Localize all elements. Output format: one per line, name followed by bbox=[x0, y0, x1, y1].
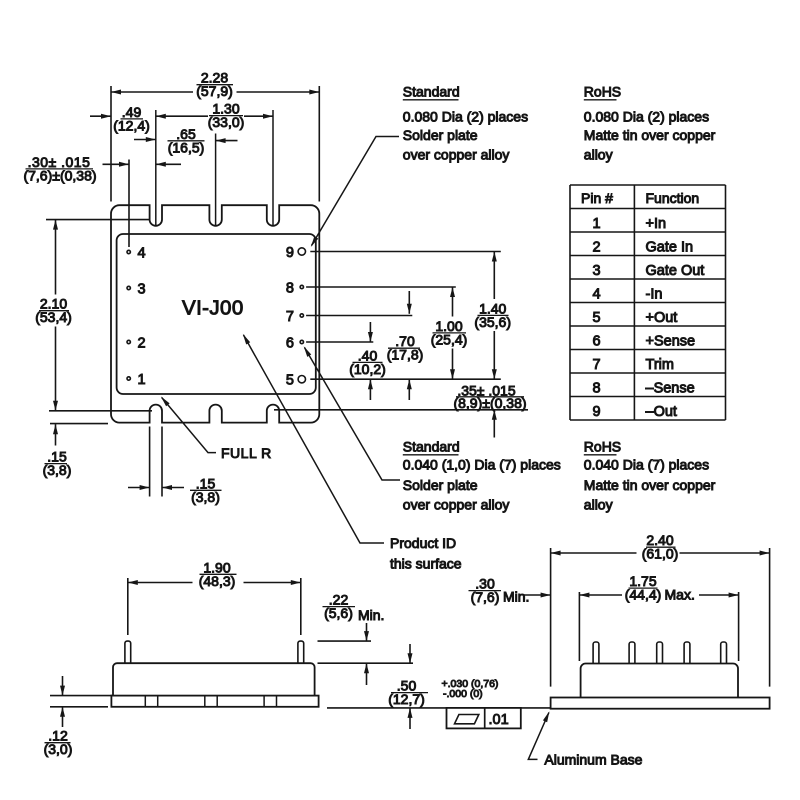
svg-text:-In: -In bbox=[646, 286, 663, 302]
svg-text:4: 4 bbox=[138, 245, 146, 261]
side view body bbox=[113, 663, 315, 695]
svg-text:(44,4): (44,4) bbox=[625, 587, 662, 603]
svg-text:0.080 Dia (2) places: 0.080 Dia (2) places bbox=[584, 108, 709, 124]
end view pin 6 bbox=[684, 642, 690, 664]
svg-text:0.080 Dia (2) places: 0.080 Dia (2) places bbox=[403, 108, 528, 124]
side view base slot marks bbox=[145, 696, 276, 707]
dimension 1.40 (35,6) bbox=[474, 252, 511, 380]
svg-text:FULL R: FULL R bbox=[221, 445, 272, 461]
svg-text:(3,8): (3,8) bbox=[43, 462, 72, 478]
top view inner face bbox=[117, 234, 316, 394]
svg-text:alloy: alloy bbox=[584, 496, 613, 512]
svg-text:5: 5 bbox=[592, 310, 600, 326]
svg-text:(25,4): (25,4) bbox=[431, 331, 468, 347]
svg-text:2: 2 bbox=[138, 335, 146, 351]
pin row reference line y=410.5 bbox=[274, 409, 528, 411]
svg-text:(8,9)±(0,38): (8,9)±(0,38) bbox=[453, 395, 526, 411]
leader to pin 9 bbox=[309, 137, 399, 249]
svg-text:3: 3 bbox=[592, 263, 600, 279]
svg-text:Pin #: Pin # bbox=[581, 190, 613, 206]
pin 4 bbox=[127, 245, 146, 261]
svg-text:–Out: –Out bbox=[646, 404, 677, 420]
pin 8 bbox=[286, 280, 456, 296]
dimension .35±.015 (8,9)±(0,38) bbox=[453, 382, 526, 437]
svg-text:+In: +In bbox=[646, 216, 667, 232]
svg-text:(7,6): (7,6) bbox=[471, 589, 500, 605]
svg-text:3: 3 bbox=[138, 281, 146, 297]
leader FULL R bbox=[159, 395, 216, 453]
svg-text:9: 9 bbox=[286, 245, 294, 261]
svg-text:Function: Function bbox=[646, 190, 700, 206]
svg-text:(57,9): (57,9) bbox=[196, 83, 233, 99]
side view left pin bbox=[125, 641, 131, 663]
dimension .50 (12,7) height bbox=[388, 644, 428, 729]
svg-text:0.040 (1,0) Dia (7) places: 0.040 (1,0) Dia (7) places bbox=[403, 456, 561, 472]
svg-text:Gate Out: Gate Out bbox=[646, 263, 705, 279]
svg-text:Trim: Trim bbox=[646, 357, 674, 373]
svg-text:6: 6 bbox=[592, 333, 600, 349]
svg-text:this surface: this surface bbox=[390, 556, 462, 572]
svg-text:–Sense: –Sense bbox=[646, 380, 695, 396]
svg-text:2: 2 bbox=[592, 239, 600, 255]
svg-text:alloy: alloy bbox=[584, 146, 613, 162]
dimension 1.00 (25,4) bbox=[431, 287, 468, 379]
dimension 1.90 (48,3) bbox=[128, 559, 301, 635]
dimension .65 (16,5) bbox=[134, 126, 238, 156]
svg-text:Aluminum Base: Aluminum Base bbox=[544, 751, 642, 767]
svg-text:over copper alloy: over copper alloy bbox=[403, 146, 510, 162]
dimension 1.75 (44,4) Max bbox=[579, 573, 738, 661]
tolerance note +.030/-.000 bbox=[442, 678, 499, 700]
note RoHS 0.080 plating bbox=[584, 84, 716, 163]
svg-text:5: 5 bbox=[286, 373, 294, 389]
note standard 0.080 plating bbox=[403, 84, 528, 163]
svg-text:(12,4): (12,4) bbox=[113, 117, 150, 133]
svg-text:+Sense: +Sense bbox=[646, 333, 696, 349]
note RoHS 0.040 plating bbox=[584, 439, 716, 513]
svg-text:Product ID: Product ID bbox=[390, 535, 456, 551]
svg-text:Min.: Min. bbox=[503, 589, 529, 605]
svg-text:-.000 (0): -.000 (0) bbox=[443, 688, 483, 700]
pin function table bbox=[570, 185, 726, 420]
svg-text:Gate In: Gate In bbox=[646, 239, 694, 255]
svg-text:6: 6 bbox=[286, 335, 294, 351]
leader aluminum base bbox=[528, 710, 551, 759]
dimension .12 (3,0) base thickness bbox=[44, 676, 112, 757]
svg-text:1: 1 bbox=[138, 372, 146, 388]
svg-text:Max.: Max. bbox=[665, 586, 695, 602]
dimension 1.30 (33,0) bbox=[156, 101, 273, 131]
svg-text:(10,2): (10,2) bbox=[349, 361, 386, 377]
svg-text:(5,6): (5,6) bbox=[324, 605, 353, 621]
end view pin 5 bbox=[721, 642, 727, 664]
svg-text:RoHS: RoHS bbox=[584, 439, 621, 455]
svg-text:1: 1 bbox=[592, 216, 600, 232]
pin 3 bbox=[127, 281, 146, 297]
svg-text:Standard: Standard bbox=[403, 84, 460, 100]
svg-text:(17,8): (17,8) bbox=[387, 347, 424, 363]
leader to pin 6 bbox=[302, 345, 400, 480]
svg-text:VI-J00: VI-J00 bbox=[182, 297, 244, 320]
svg-text:(12,7): (12,7) bbox=[388, 691, 425, 707]
dimension .30 (7,6) Min bbox=[469, 576, 551, 606]
side view base plate bbox=[111, 696, 318, 707]
side view right pin bbox=[298, 641, 304, 663]
note standard 0.040 plating bbox=[403, 439, 561, 513]
pin 7 bbox=[286, 309, 412, 325]
svg-text:8: 8 bbox=[286, 280, 294, 296]
svg-text:Min.: Min. bbox=[358, 607, 384, 623]
svg-text:(35,6): (35,6) bbox=[474, 314, 511, 330]
svg-text:Solder plate: Solder plate bbox=[403, 127, 478, 143]
flatness feature control frame bbox=[447, 708, 521, 729]
svg-text:(3,0): (3,0) bbox=[44, 741, 73, 757]
svg-text:Matte tin over copper: Matte tin over copper bbox=[584, 477, 716, 493]
dimension .30±.015 (7,6)±(0,38) pin setback bbox=[23, 154, 181, 247]
base bottom reference line bbox=[327, 707, 551, 709]
end view body bbox=[581, 664, 738, 698]
svg-text:7: 7 bbox=[286, 309, 294, 325]
slot centre extension lines bbox=[156, 110, 273, 225]
pin 6 bbox=[286, 335, 373, 351]
dimension .15 (3,8) slot width bbox=[128, 427, 222, 505]
svg-text:Solder plate: Solder plate bbox=[403, 477, 478, 493]
end view pin 7 bbox=[657, 642, 663, 664]
end view pin 8 bbox=[629, 642, 635, 664]
pin 9 bbox=[286, 245, 501, 261]
dimension .49 (12,4) bbox=[90, 104, 150, 133]
svg-text:(48,3): (48,3) bbox=[199, 573, 236, 589]
pin 2 bbox=[127, 335, 146, 351]
pin 5 bbox=[286, 373, 501, 389]
pin 1 bbox=[127, 372, 146, 388]
svg-text:4: 4 bbox=[592, 286, 600, 302]
svg-text:9: 9 bbox=[592, 404, 600, 420]
svg-text:Standard: Standard bbox=[403, 439, 460, 455]
top view module outline with mounting slots bbox=[111, 205, 319, 422]
note product id bbox=[390, 535, 462, 572]
dimension 2.28 (57,9) overall width bbox=[111, 70, 319, 202]
svg-text:(3,8): (3,8) bbox=[191, 489, 220, 505]
dimension .22 (5,6) Min pin standoff bbox=[318, 592, 414, 685]
svg-text:(33,0): (33,0) bbox=[208, 114, 245, 130]
svg-text:.01: .01 bbox=[489, 712, 509, 728]
dimension 2.10 (53,4) overall depth bbox=[35, 220, 152, 411]
leader product id bbox=[241, 333, 384, 543]
dimension 2.40 (61,0) base width bbox=[551, 532, 770, 686]
dimension .70 (17,8) bbox=[387, 291, 424, 400]
svg-text:+Out: +Out bbox=[646, 310, 678, 326]
end view aluminum base plate bbox=[551, 698, 770, 709]
svg-text:(61,0): (61,0) bbox=[642, 546, 679, 562]
svg-text:over copper alloy: over copper alloy bbox=[403, 496, 510, 512]
end view pin 9 bbox=[593, 642, 599, 664]
dimension .40 (10,2) bbox=[349, 322, 386, 400]
dimension .15 (3,8) left edge bbox=[43, 424, 108, 479]
svg-text:(16,5): (16,5) bbox=[168, 139, 205, 155]
svg-text:Matte tin over copper: Matte tin over copper bbox=[584, 127, 716, 143]
svg-text:8: 8 bbox=[592, 380, 600, 396]
svg-text:(53,4): (53,4) bbox=[35, 309, 72, 325]
svg-text:0.040 Dia (7) places: 0.040 Dia (7) places bbox=[584, 456, 709, 472]
svg-text:RoHS: RoHS bbox=[584, 84, 621, 100]
svg-text:7: 7 bbox=[592, 357, 600, 373]
svg-text:(7,6)±(0,38): (7,6)±(0,38) bbox=[23, 167, 96, 183]
